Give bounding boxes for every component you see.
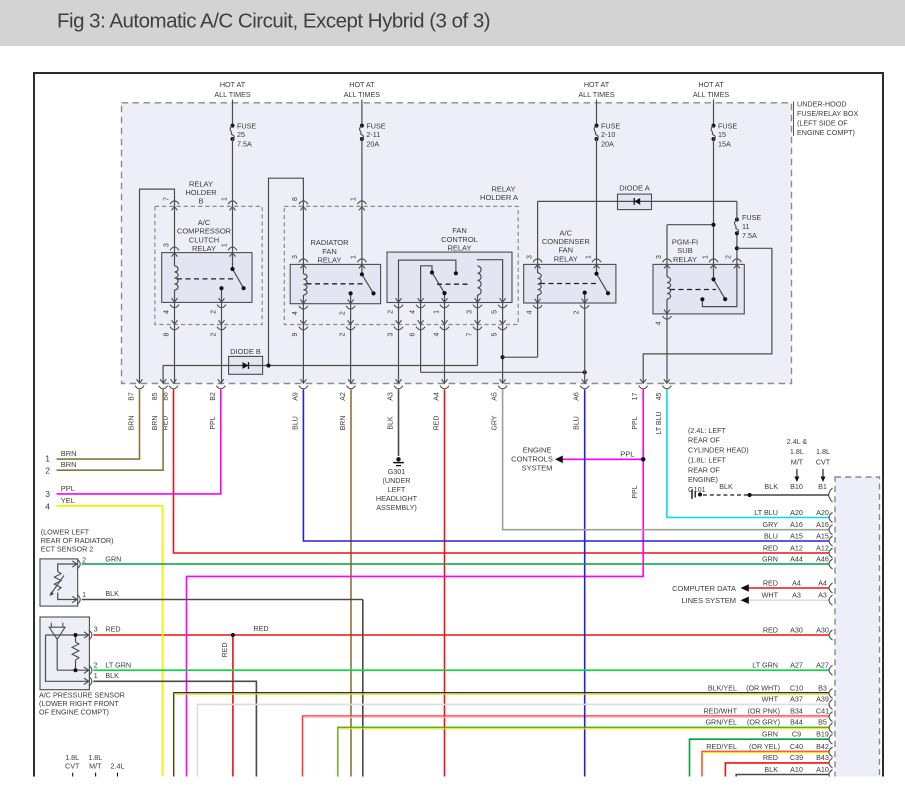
svg-text:11: 11 — [742, 222, 749, 231]
svg-text:2.4L: 2.4L — [111, 761, 125, 770]
svg-text:A3: A3 — [818, 591, 827, 600]
svg-text:A/C: A/C — [560, 228, 573, 237]
svg-text:RELAY: RELAY — [317, 256, 341, 265]
svg-text:3: 3 — [466, 310, 473, 314]
svg-text:2: 2 — [45, 466, 50, 476]
svg-text:A4: A4 — [434, 392, 441, 401]
svg-text:PGM-FI: PGM-FI — [672, 238, 698, 247]
svg-text:A12: A12 — [790, 543, 803, 552]
svg-text:ALL TIMES: ALL TIMES — [214, 90, 251, 99]
svg-text:FAN: FAN — [322, 247, 337, 256]
svg-text:C40: C40 — [790, 742, 803, 751]
svg-text:BLK: BLK — [388, 416, 395, 430]
svg-text:1: 1 — [702, 255, 709, 259]
svg-text:SUB: SUB — [677, 246, 692, 255]
svg-text:FUSE/RELAY BOX: FUSE/RELAY BOX — [797, 109, 858, 118]
svg-text:FAN: FAN — [559, 246, 574, 255]
svg-text:UNDER-HOOD: UNDER-HOOD — [797, 100, 847, 109]
svg-text:1: 1 — [351, 255, 358, 259]
svg-text:A4: A4 — [792, 578, 801, 587]
svg-text:Fig 3: Automatic A/C Circuit,: Fig 3: Automatic A/C Circuit, Except Hyb… — [57, 10, 490, 33]
svg-text:DIODE B: DIODE B — [230, 347, 261, 356]
svg-text:BLK: BLK — [105, 671, 119, 680]
svg-text:2.4L &: 2.4L & — [787, 437, 808, 446]
svg-text:(LEFT SIDE OF: (LEFT SIDE OF — [797, 119, 848, 128]
svg-text:M/T: M/T — [89, 761, 102, 770]
svg-text:COMPRESSOR: COMPRESSOR — [177, 227, 232, 236]
svg-text:A27: A27 — [790, 661, 803, 670]
svg-text:BLK: BLK — [105, 589, 119, 598]
svg-text:4: 4 — [163, 310, 170, 314]
svg-text:5: 5 — [491, 332, 498, 336]
svg-text:8: 8 — [163, 332, 170, 336]
svg-text:RED/YEL: RED/YEL — [706, 742, 737, 751]
svg-text:B44: B44 — [790, 718, 803, 727]
svg-text:PPL: PPL — [620, 450, 634, 459]
svg-text:M/T: M/T — [791, 458, 804, 467]
svg-text:A2: A2 — [340, 392, 347, 401]
svg-text:RED: RED — [763, 753, 778, 762]
svg-text:B19: B19 — [816, 730, 829, 739]
svg-text:B10: B10 — [790, 482, 803, 491]
svg-text:2-10: 2-10 — [601, 130, 615, 139]
svg-text:LT BLU: LT BLU — [754, 508, 778, 517]
svg-text:GRY: GRY — [492, 415, 499, 430]
svg-text:CONTROLS: CONTROLS — [511, 454, 553, 463]
svg-text:GRN/YEL: GRN/YEL — [705, 718, 737, 727]
svg-text:17: 17 — [632, 393, 639, 401]
svg-text:A16: A16 — [790, 520, 803, 529]
svg-text:WHT: WHT — [762, 591, 779, 600]
svg-text:A10: A10 — [790, 765, 803, 774]
svg-text:BRN: BRN — [340, 416, 347, 431]
svg-text:RED: RED — [763, 543, 778, 552]
svg-text:7.5A: 7.5A — [237, 139, 252, 148]
svg-text:3: 3 — [292, 255, 299, 259]
svg-text:CONDENSER: CONDENSER — [542, 237, 591, 246]
svg-text:A9: A9 — [292, 392, 299, 401]
svg-text:6: 6 — [409, 332, 416, 336]
svg-text:7: 7 — [466, 332, 473, 336]
svg-text:A44: A44 — [790, 554, 803, 563]
svg-text:2: 2 — [94, 662, 98, 669]
svg-text:B2: B2 — [210, 392, 217, 401]
svg-text:1: 1 — [221, 243, 228, 247]
svg-text:1: 1 — [585, 255, 592, 259]
svg-text:HOLDER A: HOLDER A — [480, 193, 518, 202]
svg-text:SYSTEM: SYSTEM — [522, 463, 553, 472]
svg-text:B43: B43 — [816, 753, 829, 762]
svg-text:BLK: BLK — [764, 765, 778, 774]
svg-text:RELAY: RELAY — [554, 254, 578, 263]
svg-text:2: 2 — [387, 310, 394, 314]
svg-text:4: 4 — [45, 501, 50, 511]
svg-text:A6: A6 — [574, 392, 581, 401]
svg-text:A46: A46 — [816, 554, 829, 563]
svg-text:A5: A5 — [492, 392, 499, 401]
svg-text:RED: RED — [222, 643, 229, 658]
svg-text:BRN: BRN — [129, 416, 136, 431]
svg-text:4: 4 — [292, 311, 299, 315]
svg-text:A3: A3 — [388, 392, 395, 401]
svg-text:GRY: GRY — [763, 520, 779, 529]
svg-text:LT GRN: LT GRN — [752, 661, 778, 670]
svg-text:(OR WHT): (OR WHT) — [746, 683, 780, 692]
svg-text:2: 2 — [82, 558, 86, 565]
svg-text:A12: A12 — [816, 543, 829, 552]
svg-text:B42: B42 — [816, 742, 829, 751]
svg-text:A4: A4 — [818, 578, 827, 587]
svg-text:HOT AT: HOT AT — [349, 80, 375, 89]
svg-text:1: 1 — [221, 197, 228, 201]
svg-text:CVT: CVT — [816, 458, 831, 467]
svg-text:LEFT: LEFT — [388, 485, 406, 494]
svg-text:7: 7 — [163, 197, 170, 201]
svg-text:RED: RED — [763, 578, 778, 587]
svg-text:RELAY: RELAY — [673, 255, 697, 264]
svg-text:OF ENGINE COMPT): OF ENGINE COMPT) — [39, 708, 109, 717]
svg-text:CYLINDER HEAD): CYLINDER HEAD) — [688, 446, 749, 455]
svg-text:4: 4 — [526, 310, 533, 314]
svg-text:C41: C41 — [816, 706, 829, 715]
svg-text:B1: B1 — [818, 482, 827, 491]
svg-text:1.8L: 1.8L — [816, 447, 830, 456]
svg-text:4: 4 — [656, 321, 663, 325]
svg-text:PPL: PPL — [210, 416, 217, 429]
svg-text:B7: B7 — [129, 392, 136, 401]
svg-text:A16: A16 — [816, 520, 829, 529]
svg-text:LT BLU: LT BLU — [656, 411, 663, 434]
svg-text:RED: RED — [105, 624, 120, 633]
svg-text:A20: A20 — [816, 508, 829, 517]
svg-text:HOT AT: HOT AT — [220, 80, 246, 89]
svg-text:2: 2 — [726, 255, 733, 259]
svg-text:GRN: GRN — [762, 730, 778, 739]
svg-text:GRN: GRN — [762, 554, 778, 563]
svg-text:RED: RED — [434, 416, 441, 431]
svg-text:BRN: BRN — [152, 416, 159, 431]
svg-text:A20: A20 — [790, 508, 803, 517]
svg-text:RELAY: RELAY — [192, 244, 216, 253]
svg-text:(2.4L: LEFT: (2.4L: LEFT — [688, 426, 727, 435]
svg-text:3: 3 — [163, 243, 170, 247]
svg-text:A10: A10 — [816, 765, 829, 774]
svg-text:HOT AT: HOT AT — [584, 80, 610, 89]
svg-text:A30: A30 — [790, 625, 803, 634]
svg-text:RADIATOR: RADIATOR — [310, 238, 349, 247]
svg-text:9: 9 — [292, 332, 299, 336]
svg-text:(OR GRY): (OR GRY) — [747, 718, 780, 727]
svg-text:A/C: A/C — [198, 218, 211, 227]
svg-text:85: 85 — [152, 393, 159, 401]
svg-text:BRN: BRN — [61, 449, 77, 458]
svg-text:ENGINE: ENGINE — [523, 445, 552, 454]
svg-text:B34: B34 — [790, 706, 803, 715]
svg-text:G101: G101 — [688, 485, 706, 494]
svg-text:20A: 20A — [366, 139, 379, 148]
svg-text:COMPUTER DATA: COMPUTER DATA — [672, 584, 736, 593]
svg-text:B3: B3 — [818, 683, 827, 692]
svg-text:3: 3 — [526, 255, 533, 259]
svg-text:ECT SENSOR 2: ECT SENSOR 2 — [41, 545, 94, 554]
svg-text:ALL TIMES: ALL TIMES — [578, 90, 615, 99]
svg-text:RED/WHT: RED/WHT — [703, 706, 737, 715]
svg-text:2: 2 — [210, 332, 217, 336]
svg-text:C39: C39 — [790, 753, 803, 762]
svg-text:YEL: YEL — [61, 496, 75, 505]
svg-text:2: 2 — [574, 310, 581, 314]
svg-text:HOT AT: HOT AT — [698, 80, 724, 89]
svg-text:BLK: BLK — [764, 482, 778, 491]
svg-text:C9: C9 — [792, 730, 801, 739]
svg-text:4: 4 — [433, 332, 440, 336]
svg-text:A37: A37 — [790, 695, 803, 704]
svg-text:G301: G301 — [388, 467, 406, 476]
svg-text:7.5A: 7.5A — [742, 231, 757, 240]
svg-text:2: 2 — [339, 311, 346, 315]
svg-text:FUSE: FUSE — [237, 121, 256, 130]
svg-text:CLUTCH: CLUTCH — [189, 235, 219, 244]
svg-text:FUSE: FUSE — [366, 121, 385, 130]
svg-text:FUSE: FUSE — [742, 213, 761, 222]
svg-text:1: 1 — [82, 592, 86, 599]
svg-text:2-11: 2-11 — [366, 130, 380, 139]
svg-text:FAN: FAN — [452, 226, 467, 235]
svg-text:A30: A30 — [816, 625, 829, 634]
svg-text:3: 3 — [387, 332, 394, 336]
svg-text:1: 1 — [45, 454, 50, 464]
svg-text:RED: RED — [763, 625, 778, 634]
svg-text:5: 5 — [491, 310, 498, 314]
svg-text:ASSEMBLY): ASSEMBLY) — [376, 503, 417, 512]
svg-text:3: 3 — [45, 489, 50, 499]
svg-text:A15: A15 — [816, 531, 829, 540]
svg-text:CVT: CVT — [65, 761, 80, 770]
svg-text:FUSE: FUSE — [601, 121, 620, 130]
svg-text:25: 25 — [237, 130, 245, 139]
svg-text:GRN: GRN — [105, 555, 121, 564]
svg-text:LINES SYSTEM: LINES SYSTEM — [681, 596, 736, 605]
svg-text:BLU: BLU — [574, 416, 581, 430]
svg-text:15: 15 — [718, 130, 726, 139]
svg-text:1: 1 — [433, 310, 440, 314]
svg-text:RELAY: RELAY — [447, 244, 471, 253]
svg-text:ALL TIMES: ALL TIMES — [693, 90, 730, 99]
svg-text:1: 1 — [94, 673, 98, 680]
svg-text:A39: A39 — [816, 695, 829, 704]
svg-text:HEADLIGHT: HEADLIGHT — [376, 494, 418, 503]
svg-text:FUSE: FUSE — [718, 121, 737, 130]
svg-text:1.8L: 1.8L — [790, 447, 804, 456]
svg-text:BLU: BLU — [292, 416, 299, 430]
svg-text:B: B — [198, 197, 203, 206]
svg-text:8: 8 — [292, 197, 299, 201]
svg-text:ALL TIMES: ALL TIMES — [344, 90, 381, 99]
svg-text:DIODE A: DIODE A — [619, 184, 649, 193]
svg-text:C10: C10 — [790, 683, 803, 692]
svg-text:ENGINE COMPT): ENGINE COMPT) — [797, 128, 855, 137]
svg-text:45: 45 — [656, 393, 663, 401]
svg-text:RED: RED — [253, 624, 268, 633]
svg-text:REAR OF: REAR OF — [688, 436, 721, 445]
svg-text:CONTROL: CONTROL — [441, 235, 478, 244]
svg-text:2: 2 — [210, 310, 217, 314]
svg-text:PPL: PPL — [61, 484, 75, 493]
svg-text:(UNDER: (UNDER — [383, 476, 411, 485]
svg-text:B5: B5 — [818, 718, 827, 727]
svg-text:WHT: WHT — [762, 695, 779, 704]
svg-text:3: 3 — [656, 255, 663, 259]
svg-text:A27: A27 — [816, 661, 829, 670]
svg-text:BLK: BLK — [719, 482, 733, 491]
svg-text:15A: 15A — [718, 139, 731, 148]
svg-text:(1.8L: LEFT: (1.8L: LEFT — [688, 455, 727, 464]
svg-text:LT GRN: LT GRN — [105, 660, 131, 669]
svg-text:REAR OF: REAR OF — [688, 465, 721, 474]
svg-text:PPL: PPL — [632, 416, 639, 429]
svg-text:BLU: BLU — [764, 531, 778, 540]
svg-text:1: 1 — [351, 197, 358, 201]
svg-text:A15: A15 — [790, 531, 803, 540]
svg-text:3: 3 — [94, 626, 98, 633]
svg-text:BRN: BRN — [61, 460, 77, 469]
svg-text:(OR YEL): (OR YEL) — [749, 742, 780, 751]
svg-text:ENGINE): ENGINE) — [688, 475, 718, 484]
svg-text:BLK/YEL: BLK/YEL — [708, 683, 737, 692]
svg-text:PPL: PPL — [632, 485, 639, 498]
svg-text:4: 4 — [409, 310, 416, 314]
svg-text:A3: A3 — [792, 591, 801, 600]
svg-text:20A: 20A — [601, 139, 614, 148]
svg-text:2: 2 — [339, 332, 346, 336]
svg-text:(OR PNK): (OR PNK) — [748, 706, 780, 715]
